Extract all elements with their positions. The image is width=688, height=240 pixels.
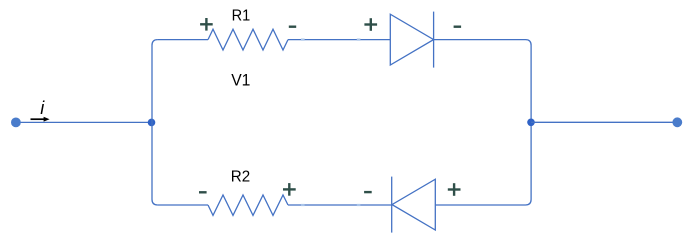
svg-text:R1: R1 bbox=[232, 8, 251, 25]
wire: bottom rail right segment bbox=[435, 204, 525, 206]
left terminal node bbox=[11, 118, 21, 128]
node A junction dot bbox=[148, 119, 156, 127]
svg-text:V1: V1 bbox=[231, 71, 250, 90]
current arrow bbox=[31, 117, 50, 122]
node B junction dot bbox=[527, 119, 535, 127]
minus sign at R1 right bbox=[289, 26, 296, 28]
plus sign at D1 left bbox=[364, 18, 377, 31]
plus sign at R1 left bbox=[200, 18, 213, 31]
svg-text:i: i bbox=[40, 98, 45, 118]
wire: bottom rail between R2 and D2 bbox=[288, 204, 392, 206]
right terminal node bbox=[672, 117, 682, 127]
wire: left terminal to node A bbox=[16, 121, 152, 123]
plus sign at R2 right bbox=[283, 183, 296, 196]
wire: right branch vertical with rounded corners bbox=[526, 40, 532, 205]
wire glue tick marks on bottom rail bbox=[301, 204, 360, 206]
diode D2 bbox=[392, 177, 436, 233]
plus sign at D2 right bbox=[448, 183, 461, 196]
diode D1 bbox=[390, 12, 433, 68]
resistor R2 bbox=[208, 195, 288, 215]
minus sign at D2 left bbox=[364, 191, 372, 193]
wire: top rail between R1 and D1 bbox=[288, 39, 390, 41]
svg-text:R2: R2 bbox=[231, 169, 250, 186]
resistor R1 bbox=[208, 29, 288, 50]
minus sign at R2 left bbox=[199, 191, 207, 193]
wire: bottom rail left segment bbox=[158, 204, 208, 206]
wire: top rail left segment bbox=[158, 39, 208, 41]
wire: left branch vertical with rounded corners bbox=[152, 40, 158, 205]
minus sign at D1 right bbox=[454, 26, 462, 28]
wire glue tick marks on top rail bbox=[301, 38, 360, 40]
wire: top rail right segment bbox=[434, 39, 526, 41]
wire: node B to right terminal bbox=[531, 121, 677, 123]
